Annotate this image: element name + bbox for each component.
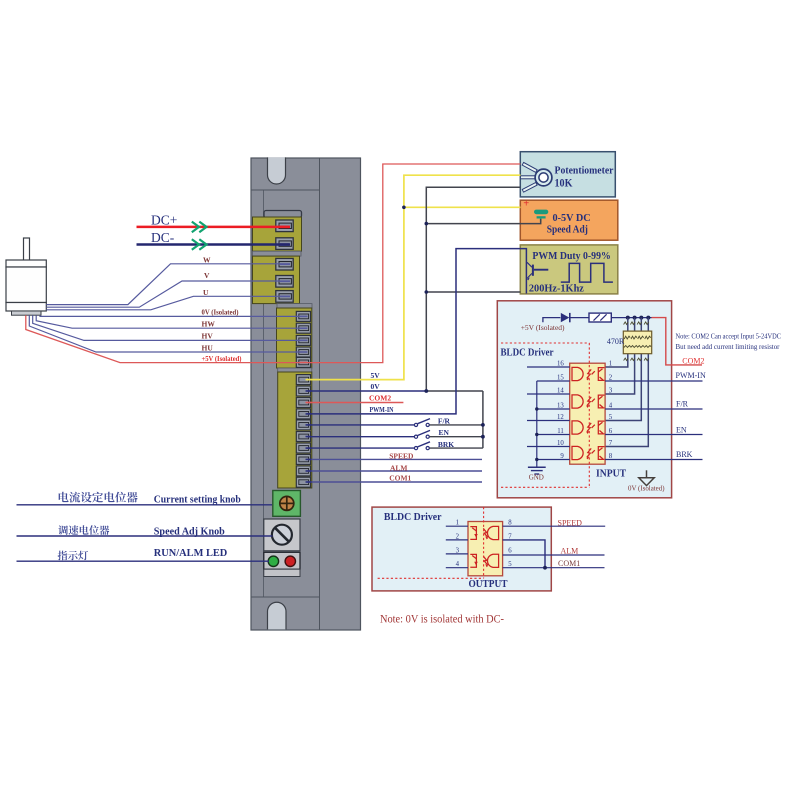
pin 6 U2 / wire ALM out (503, 554, 605, 556)
pin 9 U1 (537, 459, 570, 461)
node yellow junction (402, 206, 406, 210)
leader line current setting knob (17, 504, 273, 506)
pin 14 U1 (527, 393, 570, 395)
svg-text:3: 3 (456, 547, 460, 554)
svg-text:BLDC Driver: BLDC Driver (501, 347, 554, 358)
transistor Q1 (521, 249, 549, 294)
svg-text:EN: EN (676, 426, 687, 435)
pin 13 U1 (537, 408, 570, 410)
resistor network 470R (623, 331, 651, 354)
motor terminal block (W/V/U) (253, 256, 300, 304)
opto channel 3 U1 (572, 421, 604, 434)
pin 4 U1 / signal line (605, 408, 702, 410)
wire EN with switch (307, 430, 483, 438)
svg-text:COM2: COM2 (369, 394, 391, 403)
svg-text:5: 5 (508, 561, 512, 568)
wire BRK with switch (307, 442, 483, 450)
svg-text:0-5V DC: 0-5V DC (553, 213, 591, 224)
svg-text:PWM-IN: PWM-IN (676, 371, 706, 380)
svg-text:6: 6 (609, 428, 613, 435)
current setting potentiometer (green block with screw) (273, 491, 301, 517)
wire +5V internal rail (543, 318, 561, 323)
svg-text:16: 16 (557, 360, 564, 367)
svg-text:COM1: COM1 (558, 559, 580, 568)
diode D1 (561, 313, 570, 322)
svg-text:BRK: BRK (676, 450, 693, 459)
opto channel 2 U2 (470, 554, 498, 567)
pin 8 U2 / wire SPEED out (503, 525, 606, 527)
node switch junctions (481, 423, 485, 427)
dashed internal boundary (501, 343, 589, 487)
svg-text:3: 3 (609, 387, 613, 394)
terminal 0V isolated (296, 311, 310, 321)
leader line speed adj knob (17, 535, 273, 537)
svg-text:INPUT: INPUT (596, 468, 626, 479)
mounting slot top (268, 157, 286, 184)
terminal HW (296, 323, 310, 333)
svg-text:Note: COM2 Can accept Input 5-: Note: COM2 Can accept Input 5-24VDC (676, 331, 782, 340)
opto channel 1 U2 (470, 526, 498, 539)
motor M1 (6, 238, 46, 315)
svg-text:EN: EN (439, 428, 450, 437)
svg-text:COM1: COM1 (389, 474, 411, 483)
pin 2 U2 (446, 539, 468, 541)
svg-text:12: 12 (557, 414, 564, 421)
pin 6 U1 / signal line (605, 434, 702, 436)
terminal V (276, 276, 293, 288)
0-5V DC speed adj box (520, 200, 618, 240)
pin 2 U1 / signal line (605, 380, 702, 382)
wire DC- (137, 243, 290, 246)
pin numbers U1 left (557, 360, 564, 460)
battery symbol (534, 210, 548, 222)
pin 3 U2 (446, 553, 468, 555)
pin 15 U1 (537, 380, 570, 382)
pin 5 U2 / wire COM1 out (503, 567, 605, 569)
terminal 0V (296, 386, 310, 396)
leader line RUN/ALM LED (17, 560, 270, 562)
wire tips in terminals (280, 227, 312, 482)
divider strip (253, 251, 302, 256)
svg-text:1: 1 (456, 520, 459, 527)
terminal SPEED (296, 454, 310, 464)
svg-text:F/R: F/R (438, 416, 451, 425)
wire 0V riser to boxes (426, 187, 520, 391)
svg-text:HV: HV (202, 331, 214, 340)
svg-text:COM2: COM2 (682, 356, 704, 365)
terminal PWM-IN (296, 409, 310, 419)
opto channel 2 U1 (572, 395, 604, 408)
svg-text:8: 8 (609, 453, 613, 460)
svg-text:But need add current limiting: But need add current limiting resistor (676, 342, 780, 351)
wire W (46, 264, 290, 305)
svg-text:Speed Adj: Speed Adj (547, 225, 588, 236)
connector chevrons DC- (192, 239, 207, 250)
svg-text:U: U (203, 288, 209, 297)
terminal F/R (296, 420, 310, 430)
terminal EN (296, 432, 310, 442)
speed adj knob (gray block) (264, 519, 300, 551)
svg-text:6: 6 (508, 547, 512, 554)
svg-text:13: 13 (557, 402, 564, 409)
wire 5V (yellow) (307, 175, 521, 379)
svg-text:8: 8 (508, 520, 512, 527)
control terminal block (278, 372, 312, 488)
terminal +5V isolated (296, 357, 310, 367)
node rail junctions (626, 316, 651, 320)
wire COM2 (307, 402, 404, 404)
wire HU (29, 315, 307, 352)
svg-text:10K: 10K (555, 178, 573, 190)
pin 11 U1 (537, 434, 570, 436)
svg-text:2: 2 (609, 374, 613, 381)
terminal DC+ (276, 220, 293, 232)
control terminal block tab (278, 368, 312, 372)
svg-text:200Hz-1Khz: 200Hz-1Khz (529, 283, 584, 295)
svg-text:PWM Duty 0-99%: PWM Duty 0-99% (532, 250, 610, 262)
svg-text:7: 7 (508, 533, 512, 540)
label speed adj pot (Chinese) (58, 525, 109, 535)
wire 0V branch to PWM box (426, 291, 520, 293)
wire DC+ (137, 226, 290, 229)
wire SPEED (driver side) (307, 458, 483, 460)
svg-text:Speed Adj Knob: Speed Adj Knob (154, 526, 225, 537)
terminal HV (296, 335, 310, 345)
mounting slot bottom (268, 602, 287, 629)
wire PWM-IN (307, 249, 521, 414)
wire 0V from driver (307, 390, 427, 392)
hall terminal block tab (277, 304, 312, 309)
wire 0V common (dark) (426, 390, 483, 392)
terminal W (276, 258, 293, 270)
svg-text:1: 1 (609, 360, 612, 367)
hall terminal block (277, 308, 312, 368)
opto channel 4 U1 (572, 446, 604, 459)
wire resistor network column 2 (605, 318, 634, 394)
dashed internal boundary (output) (378, 507, 484, 578)
wire diode to resistor (570, 317, 589, 319)
svg-text:V: V (204, 271, 210, 280)
svg-text:4: 4 (609, 402, 613, 409)
potentiometer 10K box (520, 152, 615, 197)
svg-text:+5V (Isolated): +5V (Isolated) (202, 354, 242, 363)
resistor R1 (589, 313, 611, 322)
svg-text:Current setting knob: Current setting knob (154, 494, 241, 505)
terminal U (276, 291, 293, 303)
svg-text:7: 7 (609, 440, 613, 447)
wire HW (36, 315, 307, 328)
terminal DC- (276, 238, 293, 250)
wire ALM (driver side) (307, 470, 483, 472)
terminal HU (296, 347, 310, 357)
wire COM2 (red) from rail (652, 318, 703, 365)
PWM box (520, 245, 618, 294)
svg-text:BRK: BRK (438, 440, 454, 449)
svg-text:ALM: ALM (390, 463, 408, 472)
pin 1 U2 (446, 525, 468, 527)
label current setting pot (Chinese) (59, 492, 138, 503)
optocoupler U1 (input) (570, 363, 605, 464)
terminal COM2 (296, 398, 310, 408)
svg-text:+: + (523, 199, 529, 210)
svg-text:DC+: DC+ (151, 212, 177, 227)
terminal COM1 (296, 477, 310, 487)
power terminal block (DC+/DC-) (253, 217, 302, 251)
wire HV (33, 315, 308, 340)
pin 16 U1 (527, 366, 570, 368)
terminal ALM (296, 466, 310, 476)
svg-text:0V: 0V (371, 382, 381, 391)
node 0V junctions (424, 389, 428, 393)
pin 4 U2 (446, 567, 468, 569)
wire resistor network column 4 (605, 318, 648, 447)
wire resistor network column 1 (605, 318, 628, 367)
resistor elements (624, 322, 652, 361)
wire V (46, 281, 290, 307)
wire +5V isolated (red) to potentiometer box (26, 164, 521, 363)
optocoupler U2 (output) (468, 522, 503, 576)
svg-text:15: 15 (557, 374, 564, 381)
svg-text:0V (Isolated): 0V (Isolated) (628, 484, 665, 492)
svg-text:BLDC Driver: BLDC Driver (384, 511, 442, 523)
svg-text:470R: 470R (607, 337, 625, 346)
0V isolated symbol (639, 470, 654, 485)
svg-text:GND: GND (529, 473, 544, 481)
svg-text:HU: HU (202, 344, 214, 353)
svg-text:Note: 0V is isolated with DC-: Note: 0V is isolated with DC- (380, 611, 504, 625)
svg-text:9: 9 (560, 453, 564, 460)
wire yellow branch to 0-5V + (404, 206, 521, 208)
svg-text:PWM-IN: PWM-IN (370, 405, 394, 414)
svg-text:SPEED: SPEED (389, 452, 414, 461)
svg-text:OUTPUT: OUTPUT (469, 579, 508, 590)
pin 8 U1 / signal line (605, 459, 702, 461)
svg-text:0V (Isolated): 0V (Isolated) (202, 307, 239, 316)
svg-text:10: 10 (557, 440, 564, 447)
svg-text:HW: HW (202, 319, 216, 328)
svg-text:SPEED: SPEED (558, 518, 583, 527)
node COM1 junction (543, 566, 547, 570)
opto channel 1 U1 (572, 367, 604, 380)
svg-text:+5V (Isolated): +5V (Isolated) (521, 323, 565, 332)
svg-text:Potentiometer: Potentiometer (555, 165, 614, 176)
BLDC driver unit body (251, 158, 361, 630)
wire 0V isolated (hall) (40, 315, 308, 316)
wire resistor to rail (611, 317, 651, 319)
pin numbers U2 (456, 520, 513, 569)
svg-text:2: 2 (456, 533, 460, 540)
wire resistor network column 3 (605, 318, 641, 421)
svg-text:5V: 5V (371, 371, 381, 380)
svg-text:F/R: F/R (676, 399, 689, 408)
wire U (46, 296, 290, 310)
wire F/R with switch (307, 419, 483, 427)
pin 7 U2 wire to COM1 (503, 540, 545, 568)
svg-text:11: 11 (557, 428, 564, 435)
connector chevrons DC+ (192, 222, 207, 233)
pin 10 U1 (527, 446, 570, 448)
svg-text:5: 5 (609, 414, 613, 421)
BLDC driver OUTPUT interface box (372, 507, 551, 591)
BLDC driver INPUT interface box (497, 301, 671, 498)
PWM waveform (561, 263, 613, 282)
svg-text:ALM: ALM (561, 547, 579, 556)
power terminal block tab (264, 211, 302, 218)
pin numbers U1 right (609, 360, 613, 460)
ground GND (528, 467, 546, 474)
wire switch common (482, 391, 484, 448)
wire GND bus (536, 381, 538, 467)
pin 12 U1 (527, 420, 570, 422)
potentiometer symbol (521, 164, 552, 192)
svg-text:RUN/ALM LED: RUN/ALM LED (154, 548, 228, 559)
svg-text:DC-: DC- (151, 230, 175, 245)
wire 0V branch to 0-5V box (426, 219, 540, 224)
wire COM1 (driver side) (307, 481, 483, 483)
label indicator LED (Chinese) (58, 551, 88, 561)
svg-text:4: 4 (456, 561, 460, 568)
node GND bus junctions (535, 407, 538, 461)
RUN/ALM LED block (264, 552, 300, 576)
terminal BRK (296, 443, 310, 453)
svg-text:W: W (203, 255, 211, 264)
svg-text:14: 14 (557, 387, 564, 394)
terminal 5V (296, 375, 310, 385)
